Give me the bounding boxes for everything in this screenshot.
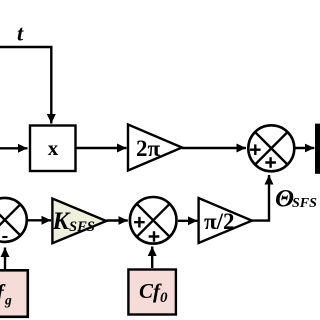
svg-text:2π: 2π <box>136 136 161 161</box>
svg-text:SFS: SFS <box>292 196 317 211</box>
svg-text:x: x <box>48 136 59 160</box>
svg-text:π/2: π/2 <box>204 209 235 234</box>
svg-text:Cf: Cf <box>139 279 162 303</box>
svg-text:SFS: SFS <box>69 219 95 235</box>
svg-text:t: t <box>17 21 24 46</box>
svg-text:g: g <box>4 293 12 308</box>
svg-text:0: 0 <box>160 290 168 306</box>
